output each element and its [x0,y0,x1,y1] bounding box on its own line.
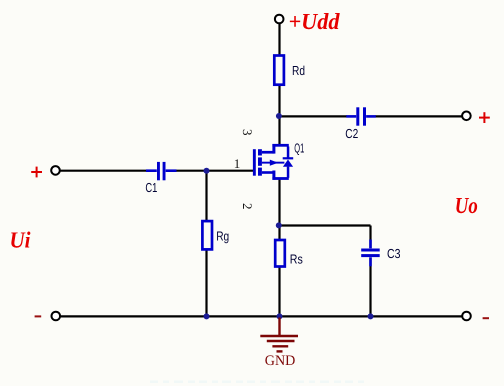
svg-text:C1: C1 [145,180,157,195]
svg-text:Rg: Rg [216,228,229,243]
svg-text:C2: C2 [345,126,358,141]
svg-text:GND: GND [265,353,296,369]
svg-text:+Udd: +Udd [289,9,340,34]
svg-text:3: 3 [240,129,255,136]
svg-text:2: 2 [240,203,255,210]
svg-text:Q1: Q1 [294,140,304,155]
svg-text:Rd: Rd [292,63,305,78]
svg-text:Uo: Uo [455,193,478,218]
svg-text:Ui: Ui [10,227,32,252]
svg-text:C3: C3 [387,246,401,261]
svg-text:Rs: Rs [290,251,303,266]
svg-text:1: 1 [234,156,241,171]
